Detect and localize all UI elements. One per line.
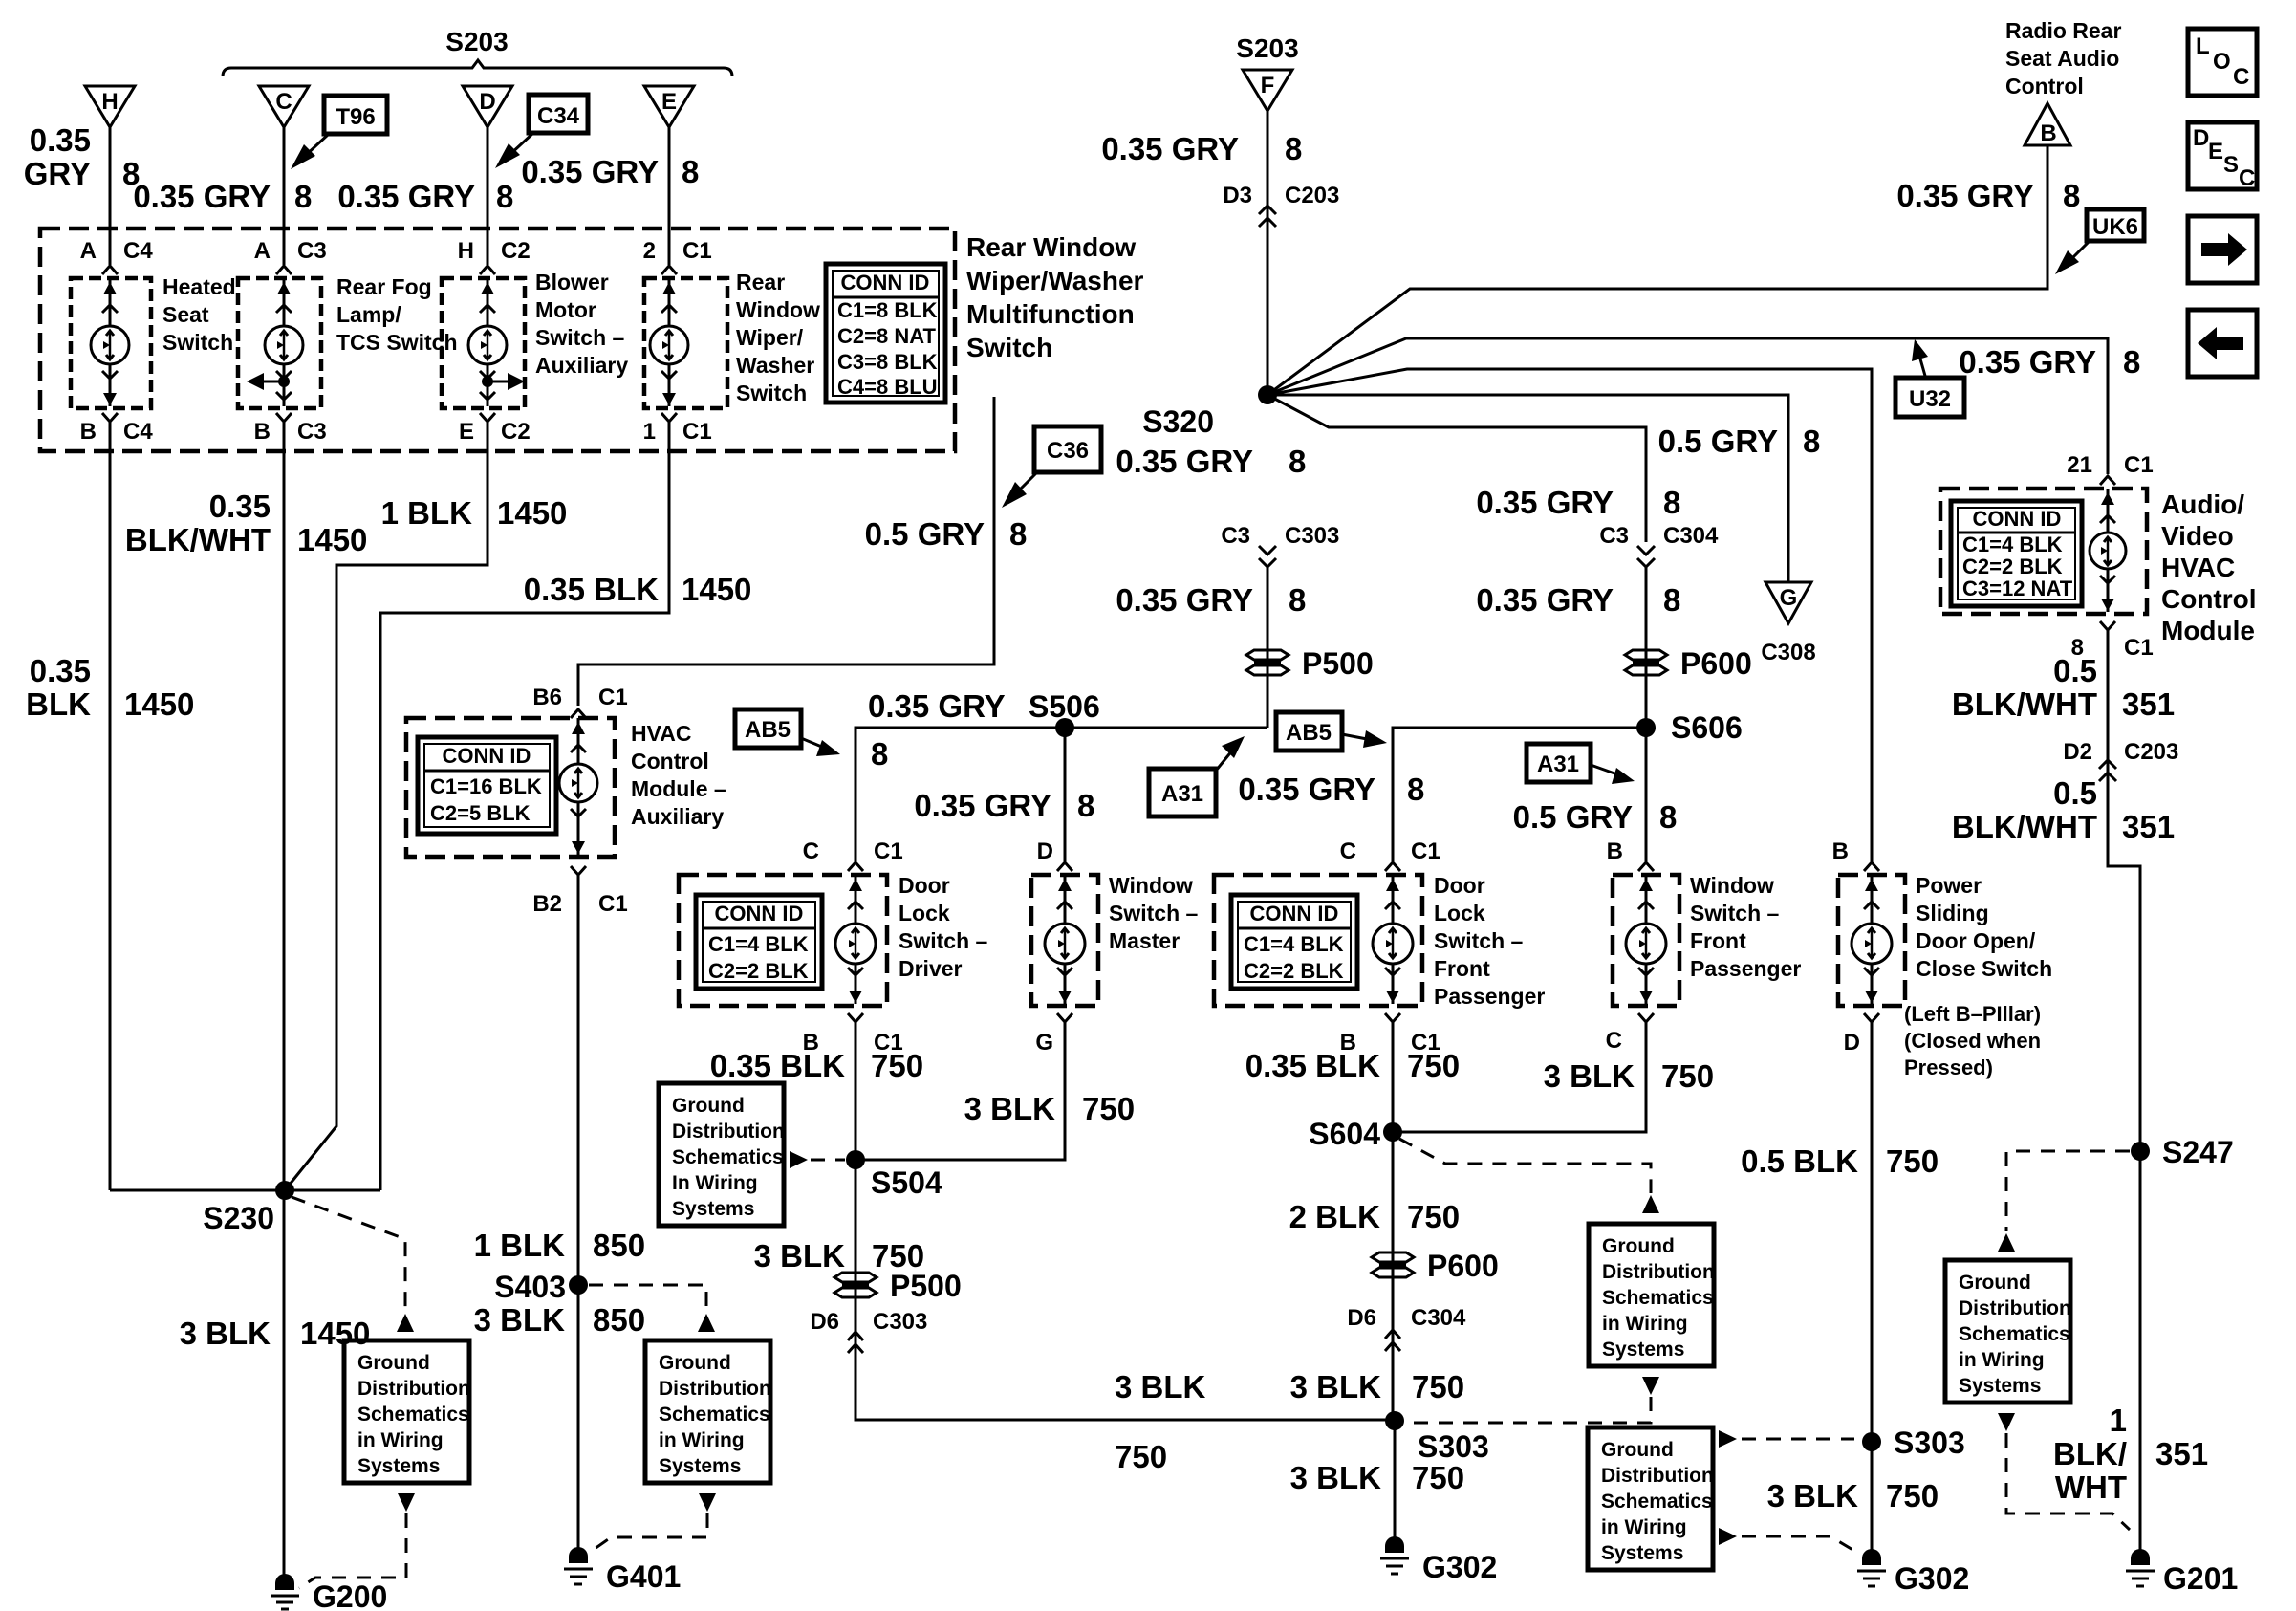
svg-text:D2: D2 bbox=[2063, 739, 2092, 765]
svg-text:C4: C4 bbox=[123, 238, 153, 264]
svg-text:C1=4 BLK: C1=4 BLK bbox=[1962, 533, 2063, 556]
pin E C2 (wire D) bbox=[459, 413, 531, 445]
svg-text:8: 8 bbox=[1663, 582, 1680, 618]
label Ground Distribution Schematics in Wiring Systems (S604) bbox=[1589, 1224, 1715, 1366]
label 0.5 BLK/WHT 351 (below D2) bbox=[1952, 775, 2175, 844]
svg-text:C3=12 NAT: C3=12 NAT bbox=[1962, 577, 2073, 600]
label 0.35 GRY 8 (above P500) bbox=[1116, 582, 1306, 618]
label Ground Distribution Schematics in Wiring Systems (G200) bbox=[344, 1340, 470, 1483]
svg-text:0.5: 0.5 bbox=[2053, 775, 2097, 811]
svg-text:Schematics: Schematics bbox=[1602, 1287, 1714, 1309]
svg-text:Multifunction: Multifunction bbox=[966, 299, 1135, 329]
svg-text:Control: Control bbox=[2005, 74, 2084, 98]
svg-text:Video: Video bbox=[2161, 521, 2234, 551]
svg-text:850: 850 bbox=[593, 1302, 645, 1338]
svg-text:1: 1 bbox=[643, 419, 656, 445]
svg-text:0.35 GRY: 0.35 GRY bbox=[1476, 485, 1614, 520]
svg-text:750: 750 bbox=[1082, 1091, 1135, 1126]
node S203 brace bbox=[223, 27, 732, 76]
wire dashed leader S403 to ground distribution box bbox=[589, 1285, 706, 1312]
svg-text:8: 8 bbox=[1289, 582, 1306, 618]
ground G401 bbox=[564, 1547, 681, 1594]
label HVAC Control Module - Auxiliary bbox=[631, 721, 726, 829]
label Window Switch - Front Passenger bbox=[1690, 873, 1801, 981]
svg-text:BLK/WHT: BLK/WHT bbox=[125, 522, 271, 557]
pin B C4 (wire H) bbox=[80, 413, 154, 445]
svg-text:0.35 BLK: 0.35 BLK bbox=[1245, 1048, 1380, 1083]
wire E below box jog down left rail bbox=[380, 430, 669, 1190]
svg-text:Control: Control bbox=[631, 749, 709, 773]
svg-text:C: C bbox=[803, 838, 819, 864]
svg-text:2 BLK: 2 BLK bbox=[1289, 1199, 1381, 1234]
label Door Lock Switch - Front Passenger bbox=[1434, 873, 1545, 1009]
svg-text:Ground: Ground bbox=[672, 1095, 745, 1117]
svg-text:3 BLK: 3 BLK bbox=[1767, 1478, 1859, 1513]
switch Rear Window Wiper/Washer Switch bbox=[644, 278, 727, 408]
label 0.5 BLK/WHT 351 (above D2) bbox=[1952, 653, 2175, 722]
svg-text:Distribution: Distribution bbox=[1602, 1261, 1715, 1283]
pin B6 C1 (HVAC aux) bbox=[532, 685, 627, 718]
svg-text:Ground: Ground bbox=[1602, 1235, 1675, 1257]
svg-text:S604: S604 bbox=[1309, 1117, 1380, 1151]
node S604 bbox=[1309, 1117, 1402, 1151]
svg-text:C303: C303 bbox=[873, 1309, 927, 1335]
label 0.5 GRY 8 (HVAC B6 wire) bbox=[865, 516, 1028, 552]
pin 1 C1 (wire E) bbox=[643, 413, 712, 445]
svg-text:BLK/: BLK/ bbox=[2053, 1436, 2127, 1471]
svg-text:Ground: Ground bbox=[1601, 1439, 1674, 1461]
svg-text:1 BLK: 1 BLK bbox=[474, 1228, 566, 1263]
svg-text:C36: C36 bbox=[1047, 438, 1089, 464]
label A31 callout (right) bbox=[1527, 744, 1635, 784]
svg-text:C304: C304 bbox=[1663, 523, 1719, 549]
node S247 bbox=[2131, 1135, 2234, 1169]
svg-text:D6: D6 bbox=[1347, 1305, 1376, 1331]
svg-text:Distribution: Distribution bbox=[659, 1378, 771, 1400]
svg-text:1450: 1450 bbox=[497, 495, 567, 531]
pin B C1 (door lock driver bottom) bbox=[803, 1013, 903, 1056]
node S606 bbox=[1636, 710, 1743, 745]
connector triangle F bbox=[1243, 70, 1292, 111]
svg-text:in Wiring: in Wiring bbox=[659, 1429, 745, 1451]
svg-text:750: 750 bbox=[871, 1048, 923, 1083]
svg-text:Auxiliary: Auxiliary bbox=[631, 804, 724, 829]
svg-text:Passenger: Passenger bbox=[1434, 984, 1545, 1009]
ground G201 bbox=[2126, 1549, 2238, 1596]
wire S320 fan to audio/video module bbox=[1267, 338, 2108, 474]
label right-arrow box bbox=[2188, 216, 2257, 283]
node S320 bbox=[1142, 385, 1277, 439]
svg-text:Module –: Module – bbox=[631, 776, 726, 801]
svg-text:Master: Master bbox=[1109, 928, 1180, 953]
svg-text:C3: C3 bbox=[1599, 523, 1629, 549]
svg-text:G: G bbox=[1780, 585, 1798, 611]
svg-text:Motor: Motor bbox=[535, 297, 596, 322]
svg-text:CONN ID: CONN ID bbox=[443, 744, 531, 768]
label 0.5 GRY 8 (window front passenger) bbox=[1513, 799, 1678, 835]
wire S230 horizontal tie bbox=[110, 1189, 380, 1192]
svg-text:C3: C3 bbox=[1221, 523, 1250, 549]
svg-text:Control: Control bbox=[2161, 584, 2257, 614]
svg-text:B: B bbox=[2040, 120, 2056, 146]
svg-text:3 BLK: 3 BLK bbox=[180, 1316, 271, 1351]
svg-text:Seat: Seat bbox=[162, 302, 209, 327]
label 3 BLK 750 (window front passenger bottom) bbox=[1544, 1058, 1714, 1094]
switch audio module internal bbox=[2090, 489, 2126, 612]
svg-text:B: B bbox=[1607, 838, 1623, 864]
svg-text:S: S bbox=[2223, 152, 2239, 178]
wire dashed leader S247 to ground distribution box bbox=[2006, 1151, 2130, 1231]
svg-text:Passenger: Passenger bbox=[1690, 956, 1801, 981]
wire D triangle to switch bbox=[487, 127, 489, 265]
label 3 BLK 750 (above S303 left) bbox=[1290, 1369, 1464, 1404]
label 1 BLK/WHT 351 (G201 wire) bbox=[2053, 1403, 2208, 1505]
wire E triangle to switch bbox=[668, 127, 671, 265]
wire dashed leader box to G201 bbox=[1998, 1413, 2015, 1431]
svg-text:BLK: BLK bbox=[26, 686, 91, 722]
svg-text:G: G bbox=[1035, 1030, 1053, 1056]
label 3 BLK 750 (master bottom) bbox=[964, 1091, 1135, 1126]
pin H C2 (wire D) bbox=[458, 238, 531, 274]
label Blower Motor Switch - Auxiliary bbox=[535, 270, 628, 378]
svg-text:8: 8 bbox=[1663, 485, 1680, 520]
svg-text:C1: C1 bbox=[682, 419, 712, 445]
svg-text:in Wiring: in Wiring bbox=[1601, 1516, 1687, 1538]
wire H triangle to switch bbox=[109, 127, 112, 265]
svg-text:GRY: GRY bbox=[24, 156, 91, 191]
label 1 BLK 1450 (wire D) bbox=[381, 495, 568, 531]
wire window front passenger jog to S604 bbox=[1393, 1031, 1646, 1132]
wire HVAC B6 feed from S320 row bbox=[578, 397, 994, 706]
svg-text:C1: C1 bbox=[598, 891, 628, 917]
svg-text:3 BLK: 3 BLK bbox=[474, 1302, 566, 1338]
svg-text:8: 8 bbox=[682, 154, 699, 189]
label 0.35 GRY 8 (B wire) bbox=[1896, 178, 2080, 213]
svg-text:0.35 GRY: 0.35 GRY bbox=[868, 688, 1006, 724]
svg-text:21: 21 bbox=[2067, 452, 2092, 478]
svg-text:0.35 GRY: 0.35 GRY bbox=[337, 179, 475, 214]
component Door Lock Switch - Driver (dashed box) bbox=[679, 875, 887, 1006]
svg-text:F: F bbox=[1261, 73, 1275, 98]
component Door Lock Switch - Front Passenger (dashed box) bbox=[1214, 875, 1422, 1006]
label Audio/Video HVAC Control Module bbox=[2161, 490, 2257, 645]
wire S320 fan to C304 rail bbox=[1267, 395, 1646, 542]
svg-text:C: C bbox=[1340, 838, 1356, 864]
wire master bottom jog to S504 bbox=[856, 1031, 1065, 1160]
svg-text:3 BLK: 3 BLK bbox=[1290, 1369, 1382, 1404]
label T96 callout bbox=[291, 96, 387, 169]
label 0.35 GRY 8 (F rail) bbox=[1101, 131, 1302, 166]
svg-text:BLK/WHT: BLK/WHT bbox=[1952, 809, 2097, 844]
label 0.35 GRY 8 (wire D) bbox=[337, 179, 513, 214]
svg-text:C: C bbox=[275, 89, 292, 115]
svg-text:Front: Front bbox=[1434, 956, 1490, 981]
svg-text:C: C bbox=[2233, 64, 2249, 90]
label 0.35 BLK/WHT 1450 (wire C) bbox=[125, 489, 368, 557]
node S303 (left) bbox=[1385, 1411, 1489, 1464]
svg-text:E: E bbox=[2208, 139, 2223, 164]
label UK6 callout bbox=[2055, 209, 2144, 274]
svg-text:C2=2 BLK: C2=2 BLK bbox=[708, 959, 809, 983]
label 3 BLK 750 (below S303 right) bbox=[1767, 1478, 1939, 1513]
svg-text:Rear Window: Rear Window bbox=[966, 232, 1136, 262]
svg-text:D: D bbox=[1844, 1030, 1860, 1056]
svg-text:U32: U32 bbox=[1909, 386, 1951, 412]
svg-text:B2: B2 bbox=[532, 891, 562, 917]
switch Blower Motor Switch - Auxiliary bbox=[442, 278, 525, 408]
svg-text:0.35: 0.35 bbox=[30, 122, 91, 158]
label heading Rear Window Wiper/Washer Multifunction Switch bbox=[966, 232, 1144, 362]
svg-text:Systems: Systems bbox=[659, 1455, 741, 1477]
pin 8 C1 (audio module bottom) bbox=[2071, 621, 2154, 661]
svg-text:G302: G302 bbox=[1895, 1561, 1969, 1596]
wire C303 to P500 to S506 row bbox=[1267, 567, 1269, 728]
connector triangle D bbox=[463, 86, 512, 127]
svg-text:A: A bbox=[254, 238, 271, 264]
pin 2 C1 (wire E) bbox=[643, 238, 712, 274]
svg-text:Door: Door bbox=[1434, 873, 1485, 898]
svg-text:BLK/WHT: BLK/WHT bbox=[1952, 686, 2097, 722]
svg-text:C1=16 BLK: C1=16 BLK bbox=[430, 774, 542, 798]
wire S320 fan to power sliding door switch bbox=[1267, 369, 1872, 861]
svg-text:0.35 GRY: 0.35 GRY bbox=[1238, 772, 1375, 807]
svg-text:750: 750 bbox=[1407, 1199, 1460, 1234]
svg-text:S320: S320 bbox=[1142, 404, 1214, 439]
svg-text:Switch –: Switch – bbox=[535, 325, 625, 350]
label 3 BLK 1450 (wire C below S230) bbox=[180, 1316, 371, 1351]
svg-text:1450: 1450 bbox=[300, 1316, 370, 1351]
label 0.5 BLK 750 (power door rail) bbox=[1741, 1143, 1939, 1179]
wire dashed leader box to G200 bbox=[398, 1493, 415, 1512]
svg-text:8: 8 bbox=[1009, 516, 1027, 552]
wire D below box jog to S230 bbox=[285, 430, 487, 1190]
svg-text:Rear: Rear bbox=[736, 270, 785, 294]
svg-text:1 BLK: 1 BLK bbox=[381, 495, 473, 531]
svg-text:Door Open/: Door Open/ bbox=[1916, 928, 2036, 953]
svg-text:1: 1 bbox=[2110, 1403, 2127, 1438]
pin C C1 (door lock driver) bbox=[803, 838, 903, 871]
label CONN ID table (door lock driver) bbox=[696, 895, 822, 989]
svg-text:E: E bbox=[661, 89, 677, 115]
label CONN ID table (audio module) bbox=[1951, 501, 2082, 606]
svg-text:Distribution: Distribution bbox=[357, 1378, 470, 1400]
svg-text:Ground: Ground bbox=[1959, 1272, 2031, 1294]
label 0.5 GRY 8 (C304 rail top) bbox=[1658, 424, 1821, 459]
svg-text:O: O bbox=[2213, 49, 2231, 75]
svg-text:S303: S303 bbox=[1418, 1429, 1489, 1464]
svg-text:0.35 GRY: 0.35 GRY bbox=[521, 154, 659, 189]
svg-text:3 BLK: 3 BLK bbox=[1290, 1460, 1382, 1495]
svg-text:Radio Rear: Radio Rear bbox=[2005, 18, 2121, 43]
connector D2 C203 bbox=[2063, 739, 2178, 781]
connector triangle H bbox=[85, 86, 135, 127]
svg-text:8: 8 bbox=[1077, 788, 1094, 823]
label 0.35 BLK 750 (front passenger bottom) bbox=[1245, 1048, 1460, 1083]
svg-text:E: E bbox=[459, 419, 474, 445]
svg-text:Lamp/: Lamp/ bbox=[336, 302, 401, 327]
svg-text:T96: T96 bbox=[336, 104, 375, 130]
svg-text:8: 8 bbox=[294, 179, 312, 214]
svg-text:Distribution: Distribution bbox=[1959, 1297, 2071, 1319]
svg-text:Power: Power bbox=[1916, 873, 1982, 898]
svg-text:0.35 GRY: 0.35 GRY bbox=[914, 788, 1051, 823]
label 0.35 BLK 1450 (wire H) bbox=[26, 653, 194, 722]
svg-text:0.5 GRY: 0.5 GRY bbox=[1658, 424, 1778, 459]
connector P600 (lower grommet) bbox=[1372, 1249, 1499, 1283]
connector D6 C304 bbox=[1347, 1305, 1466, 1351]
svg-text:Seat Audio: Seat Audio bbox=[2005, 46, 2119, 71]
wire H below box to S230 row bbox=[109, 430, 112, 1190]
svg-text:S303: S303 bbox=[1894, 1426, 1965, 1460]
svg-text:Washer: Washer bbox=[736, 353, 814, 378]
svg-text:8: 8 bbox=[1285, 131, 1302, 166]
label 0.35 GRY 8 (front passenger door lock drop) bbox=[1238, 772, 1424, 807]
svg-text:8: 8 bbox=[2123, 344, 2140, 380]
svg-text:H: H bbox=[458, 238, 474, 264]
svg-text:0.5: 0.5 bbox=[2053, 653, 2097, 688]
wire driver bottom to S504 bbox=[855, 1031, 857, 1355]
svg-text:C34: C34 bbox=[537, 103, 580, 129]
svg-text:C2=2 BLK: C2=2 BLK bbox=[1962, 555, 2063, 578]
svg-text:C2=8 NAT: C2=8 NAT bbox=[837, 324, 936, 348]
wire HVAC B2 to G401 bbox=[577, 883, 580, 1557]
switch door lock driver internal bbox=[835, 875, 876, 1004]
svg-text:Pressed): Pressed) bbox=[1904, 1056, 1993, 1079]
label U32 callout bbox=[1895, 339, 1964, 417]
svg-text:Audio/: Audio/ bbox=[2161, 490, 2244, 519]
svg-text:Systems: Systems bbox=[357, 1455, 440, 1477]
svg-text:750: 750 bbox=[1661, 1058, 1714, 1094]
switch HVAC aux internal bbox=[559, 718, 597, 855]
svg-text:Rear Fog: Rear Fog bbox=[336, 274, 432, 299]
svg-text:In Wiring: In Wiring bbox=[672, 1172, 758, 1194]
wire S320 fan to C308 (G) bbox=[1267, 395, 1788, 582]
svg-text:Sliding: Sliding bbox=[1916, 901, 1989, 925]
wire dashed leader box to S504 bbox=[790, 1151, 845, 1168]
svg-text:0.35 GRY: 0.35 GRY bbox=[133, 179, 271, 214]
svg-text:8: 8 bbox=[1659, 799, 1677, 835]
svg-text:C3: C3 bbox=[297, 238, 327, 264]
svg-text:Distribution: Distribution bbox=[1601, 1465, 1714, 1487]
label Ground Distribution Schematics in Wiring Systems (G401) bbox=[645, 1340, 771, 1483]
svg-text:Wiper/: Wiper/ bbox=[736, 325, 804, 350]
svg-text:C1: C1 bbox=[1411, 838, 1440, 864]
wire dashed leader box to G302 right bbox=[1719, 1528, 1859, 1554]
svg-text:Window: Window bbox=[736, 297, 820, 322]
wire dashed leader S230 to ground distribution box bbox=[292, 1197, 405, 1312]
svg-text:Close Switch: Close Switch bbox=[1916, 956, 2052, 981]
svg-text:Switch –: Switch – bbox=[1434, 928, 1524, 953]
svg-text:Schematics: Schematics bbox=[1601, 1491, 1713, 1513]
label AB5 callout (driver) bbox=[735, 709, 840, 756]
svg-text:HVAC: HVAC bbox=[2161, 553, 2235, 582]
svg-text:(Closed when: (Closed when bbox=[1904, 1029, 2041, 1053]
node S303 (right) bbox=[1862, 1426, 1965, 1460]
label Radio Rear Seat Audio Control bbox=[2005, 18, 2121, 98]
svg-text:S606: S606 bbox=[1671, 710, 1743, 745]
svg-text:0.5 GRY: 0.5 GRY bbox=[865, 516, 985, 552]
label Ground Distribution Schematics in Wiring Systems (S247) bbox=[1945, 1260, 2071, 1403]
svg-text:C4: C4 bbox=[123, 419, 153, 445]
label 0.35 GRY 8 (above P600) bbox=[1476, 582, 1680, 618]
wire C triangle to switch bbox=[283, 127, 286, 265]
wire S606 down to window front passenger bbox=[1645, 728, 1648, 861]
label Door Lock Switch - Driver bbox=[899, 873, 988, 981]
svg-text:P600: P600 bbox=[1680, 646, 1752, 681]
svg-text:S230: S230 bbox=[203, 1201, 274, 1235]
wire dashed leader box to S303 right bbox=[1719, 1430, 1854, 1448]
svg-text:D: D bbox=[479, 89, 495, 115]
svg-text:8: 8 bbox=[2063, 178, 2080, 213]
wire power sliding door rail down to G302 (right) bbox=[1871, 1031, 1874, 1558]
label C36 callout bbox=[1002, 426, 1101, 508]
svg-text:3 BLK: 3 BLK bbox=[964, 1091, 1056, 1126]
svg-text:0.35 BLK: 0.35 BLK bbox=[524, 572, 659, 607]
label left-arrow box bbox=[2188, 310, 2257, 377]
svg-text:S203: S203 bbox=[445, 27, 508, 56]
connector P600 (grommet) bbox=[1625, 646, 1752, 681]
svg-text:Switch: Switch bbox=[162, 330, 233, 355]
wire audio module rail down with jog to G201 bbox=[2108, 639, 2140, 1558]
svg-text:Switch –: Switch – bbox=[1690, 901, 1780, 925]
label 0.35 GRY 8 (wire C) bbox=[133, 179, 312, 214]
svg-text:351: 351 bbox=[2155, 1436, 2208, 1471]
connector triangle G (C308) bbox=[1761, 582, 1815, 665]
label A31 callout (left) bbox=[1149, 736, 1245, 816]
switch Heated Seat Switch bbox=[71, 278, 151, 408]
switch Rear Fog Lamp/TCS Switch bbox=[238, 278, 321, 408]
svg-text:G201: G201 bbox=[2163, 1561, 2238, 1596]
label Rear Window Wiper/Washer Switch bbox=[736, 270, 820, 405]
svg-text:G200: G200 bbox=[313, 1579, 387, 1611]
component Window Switch - Front Passenger (dashed box) bbox=[1613, 875, 1679, 1006]
svg-text:0.35 GRY: 0.35 GRY bbox=[1116, 582, 1253, 618]
svg-text:Heated: Heated bbox=[162, 274, 236, 299]
svg-text:Front: Front bbox=[1690, 928, 1746, 953]
label 0.35 GRY 8 (wire E) bbox=[521, 154, 699, 189]
svg-text:A31: A31 bbox=[1537, 751, 1579, 777]
wire driver rail bottom to S303 bbox=[856, 1355, 1395, 1420]
svg-text:Blower: Blower bbox=[535, 270, 609, 294]
svg-text:CONN ID: CONN ID bbox=[1973, 507, 2062, 531]
svg-text:C308: C308 bbox=[1761, 640, 1815, 665]
svg-text:CONN ID: CONN ID bbox=[715, 902, 804, 925]
ground G200 bbox=[271, 1574, 387, 1611]
svg-text:P600: P600 bbox=[1427, 1249, 1499, 1283]
svg-text:C2=2 BLK: C2=2 BLK bbox=[1244, 959, 1344, 983]
wire dashed leader box down to S303 bbox=[1642, 1377, 1659, 1395]
svg-text:351: 351 bbox=[2122, 809, 2175, 844]
svg-text:CONN ID: CONN ID bbox=[841, 271, 930, 294]
svg-text:C203: C203 bbox=[2124, 739, 2178, 765]
svg-text:C203: C203 bbox=[1285, 183, 1339, 208]
svg-text:3 BLK: 3 BLK bbox=[1544, 1058, 1635, 1094]
svg-text:C304: C304 bbox=[1411, 1305, 1466, 1331]
svg-text:P500: P500 bbox=[1302, 646, 1374, 681]
node S230 bbox=[203, 1181, 294, 1235]
svg-text:C1: C1 bbox=[874, 838, 903, 864]
svg-text:H: H bbox=[101, 89, 118, 115]
svg-text:A31: A31 bbox=[1161, 781, 1203, 807]
svg-text:0.35 GRY: 0.35 GRY bbox=[1101, 131, 1239, 166]
label Ground Distribution Schematics in Wiring Systems (S303 right) bbox=[1588, 1427, 1714, 1570]
svg-text:Systems: Systems bbox=[1959, 1375, 2041, 1397]
pin B (window front passenger) bbox=[1607, 838, 1654, 871]
svg-text:WHT: WHT bbox=[2055, 1469, 2127, 1505]
svg-text:P500: P500 bbox=[890, 1269, 962, 1303]
label 0.35 GRY 8 (audio module feed) bbox=[1959, 344, 2140, 380]
switch door lock front passenger internal bbox=[1373, 875, 1413, 1004]
